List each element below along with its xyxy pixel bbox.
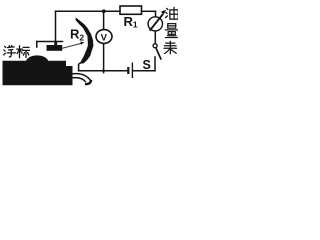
label 量 (hand-drawn glyph)	[165, 24, 178, 38]
label 标 (hand-drawn glyph)	[17, 46, 30, 58]
voltmeter U1 circle	[96, 30, 112, 44]
battery negative plate (short thick)	[127, 67, 129, 74]
float dome	[26, 55, 49, 62]
svg-text:R1: R1	[124, 14, 138, 30]
wire voltmeter top lead	[103, 11, 105, 30]
label 油 (hand-drawn glyph)	[165, 7, 178, 19]
node junction voltmeter bottom tap	[102, 69, 105, 72]
wiper pivot block	[47, 45, 63, 51]
wire slider bracket left stub	[36, 42, 38, 48]
label 浮 (hand-drawn glyph)	[4, 46, 16, 57]
resistor R1	[120, 6, 142, 14]
wire top horizontal left section	[56, 10, 121, 12]
rheostat R2 arc track	[76, 18, 94, 64]
svg-text:S: S	[143, 58, 151, 72]
node junction dot voltmeter top tap	[102, 9, 106, 13]
fuel tank with liquid	[3, 61, 73, 85]
fuel gauge meter circle	[148, 17, 162, 31]
wire bottom right section	[133, 70, 155, 72]
fuel gauge needle	[150, 10, 166, 31]
wire left vertical	[55, 11, 57, 41]
wire voltmeter bottom lead	[103, 43, 105, 72]
switch S pivot circle	[153, 44, 157, 48]
wire slider bracket horizontal	[37, 41, 63, 43]
wire top-right corner down to gauge	[155, 11, 157, 16]
battery positive plate (long thin)	[132, 63, 133, 79]
wiper block connector stub	[54, 42, 57, 46]
wire top horizontal right section	[142, 10, 156, 12]
switch S blade	[156, 48, 161, 60]
rheostat wiper arm with arrowhead	[62, 42, 84, 49]
wire gauge bottom to switch pivot	[154, 31, 156, 43]
svg-text:R2: R2	[70, 26, 84, 42]
tank outlet pipe	[73, 74, 92, 84]
label 表 (hand-drawn glyph)	[164, 41, 177, 54]
wire arc bottom lead	[79, 63, 80, 71]
svg-text:V: V	[101, 33, 108, 44]
wire switch fixed post	[154, 57, 156, 71]
wire bottom left section	[79, 70, 128, 72]
